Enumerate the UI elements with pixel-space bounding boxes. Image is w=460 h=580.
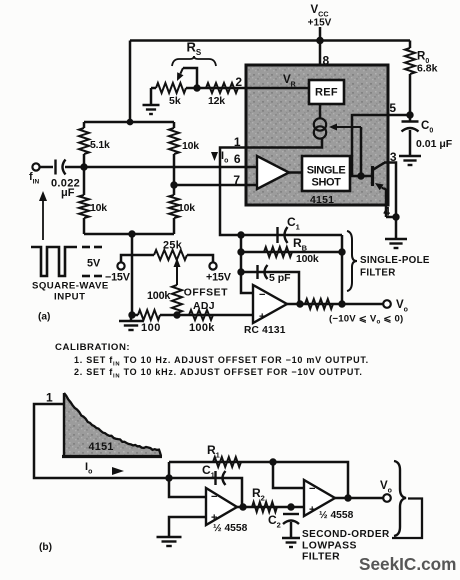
svg-text:SQUARE-WAVE: SQUARE-WAVE [32,281,109,292]
svg-text:100k: 100k [296,253,319,265]
svg-text:10k: 10k [178,202,195,214]
svg-text:7: 7 [233,173,240,187]
svg-text:5: 5 [389,101,396,115]
svg-text:0.01 μF: 0.01 μF [416,138,453,150]
svg-text:6.8k: 6.8k [417,63,438,75]
svg-text:SeekIC.com: SeekIC.com [359,554,456,574]
svg-text:5 pF: 5 pF [269,272,291,284]
svg-text:10k: 10k [90,202,107,214]
svg-text:+15V: +15V [308,18,332,29]
svg-text:½ 4558: ½ 4558 [213,523,248,534]
svg-text:RC 4131: RC 4131 [244,325,286,336]
svg-text:100k: 100k [189,322,215,334]
svg-text:INPUT: INPUT [54,292,86,303]
svg-text:(−10V ⩽ Vo ⩽ 0): (−10V ⩽ Vo ⩽ 0) [329,314,403,326]
svg-text:FILTER: FILTER [302,552,340,563]
svg-text:(a): (a) [38,312,50,323]
svg-text:100k: 100k [147,290,171,302]
svg-text:4151: 4151 [310,194,334,206]
svg-text:FILTER: FILTER [360,268,396,279]
svg-text:−: − [309,483,315,495]
svg-text:4151: 4151 [89,441,114,453]
svg-text:SINGLE: SINGLE [307,165,346,177]
svg-text:12k: 12k [208,95,225,107]
svg-text:−15V: −15V [105,272,131,284]
svg-text:REF: REF [315,87,338,99]
svg-text:+: + [309,504,315,516]
svg-text:OFFSET: OFFSET [184,288,228,299]
svg-text:1: 1 [46,391,53,405]
svg-text:5V: 5V [87,258,101,270]
svg-text:LOWPASS: LOWPASS [302,541,357,552]
svg-text:CALIBRATION:: CALIBRATION: [55,342,130,353]
svg-text:−: − [259,289,265,301]
svg-text:½ 4558: ½ 4558 [319,510,354,521]
svg-text:5k: 5k [169,95,181,107]
svg-text:+: + [259,311,265,323]
svg-text:100: 100 [141,322,161,334]
svg-text:2: 2 [235,75,242,89]
svg-text:(b): (b) [39,542,52,553]
svg-text:−: − [211,491,217,503]
svg-text:SHOT: SHOT [312,177,342,189]
svg-text:3: 3 [390,150,397,164]
svg-text:μF: μF [61,187,75,199]
svg-text:10k: 10k [182,140,199,152]
svg-text:SINGLE-POLE: SINGLE-POLE [360,255,430,266]
svg-text:6: 6 [234,152,241,166]
svg-text:+15V: +15V [206,272,232,284]
svg-text:5.1k: 5.1k [90,139,110,151]
svg-text:ADJ: ADJ [193,301,215,312]
svg-text:SECOND-ORDER: SECOND-ORDER [302,529,390,540]
svg-text:1: 1 [234,135,241,149]
